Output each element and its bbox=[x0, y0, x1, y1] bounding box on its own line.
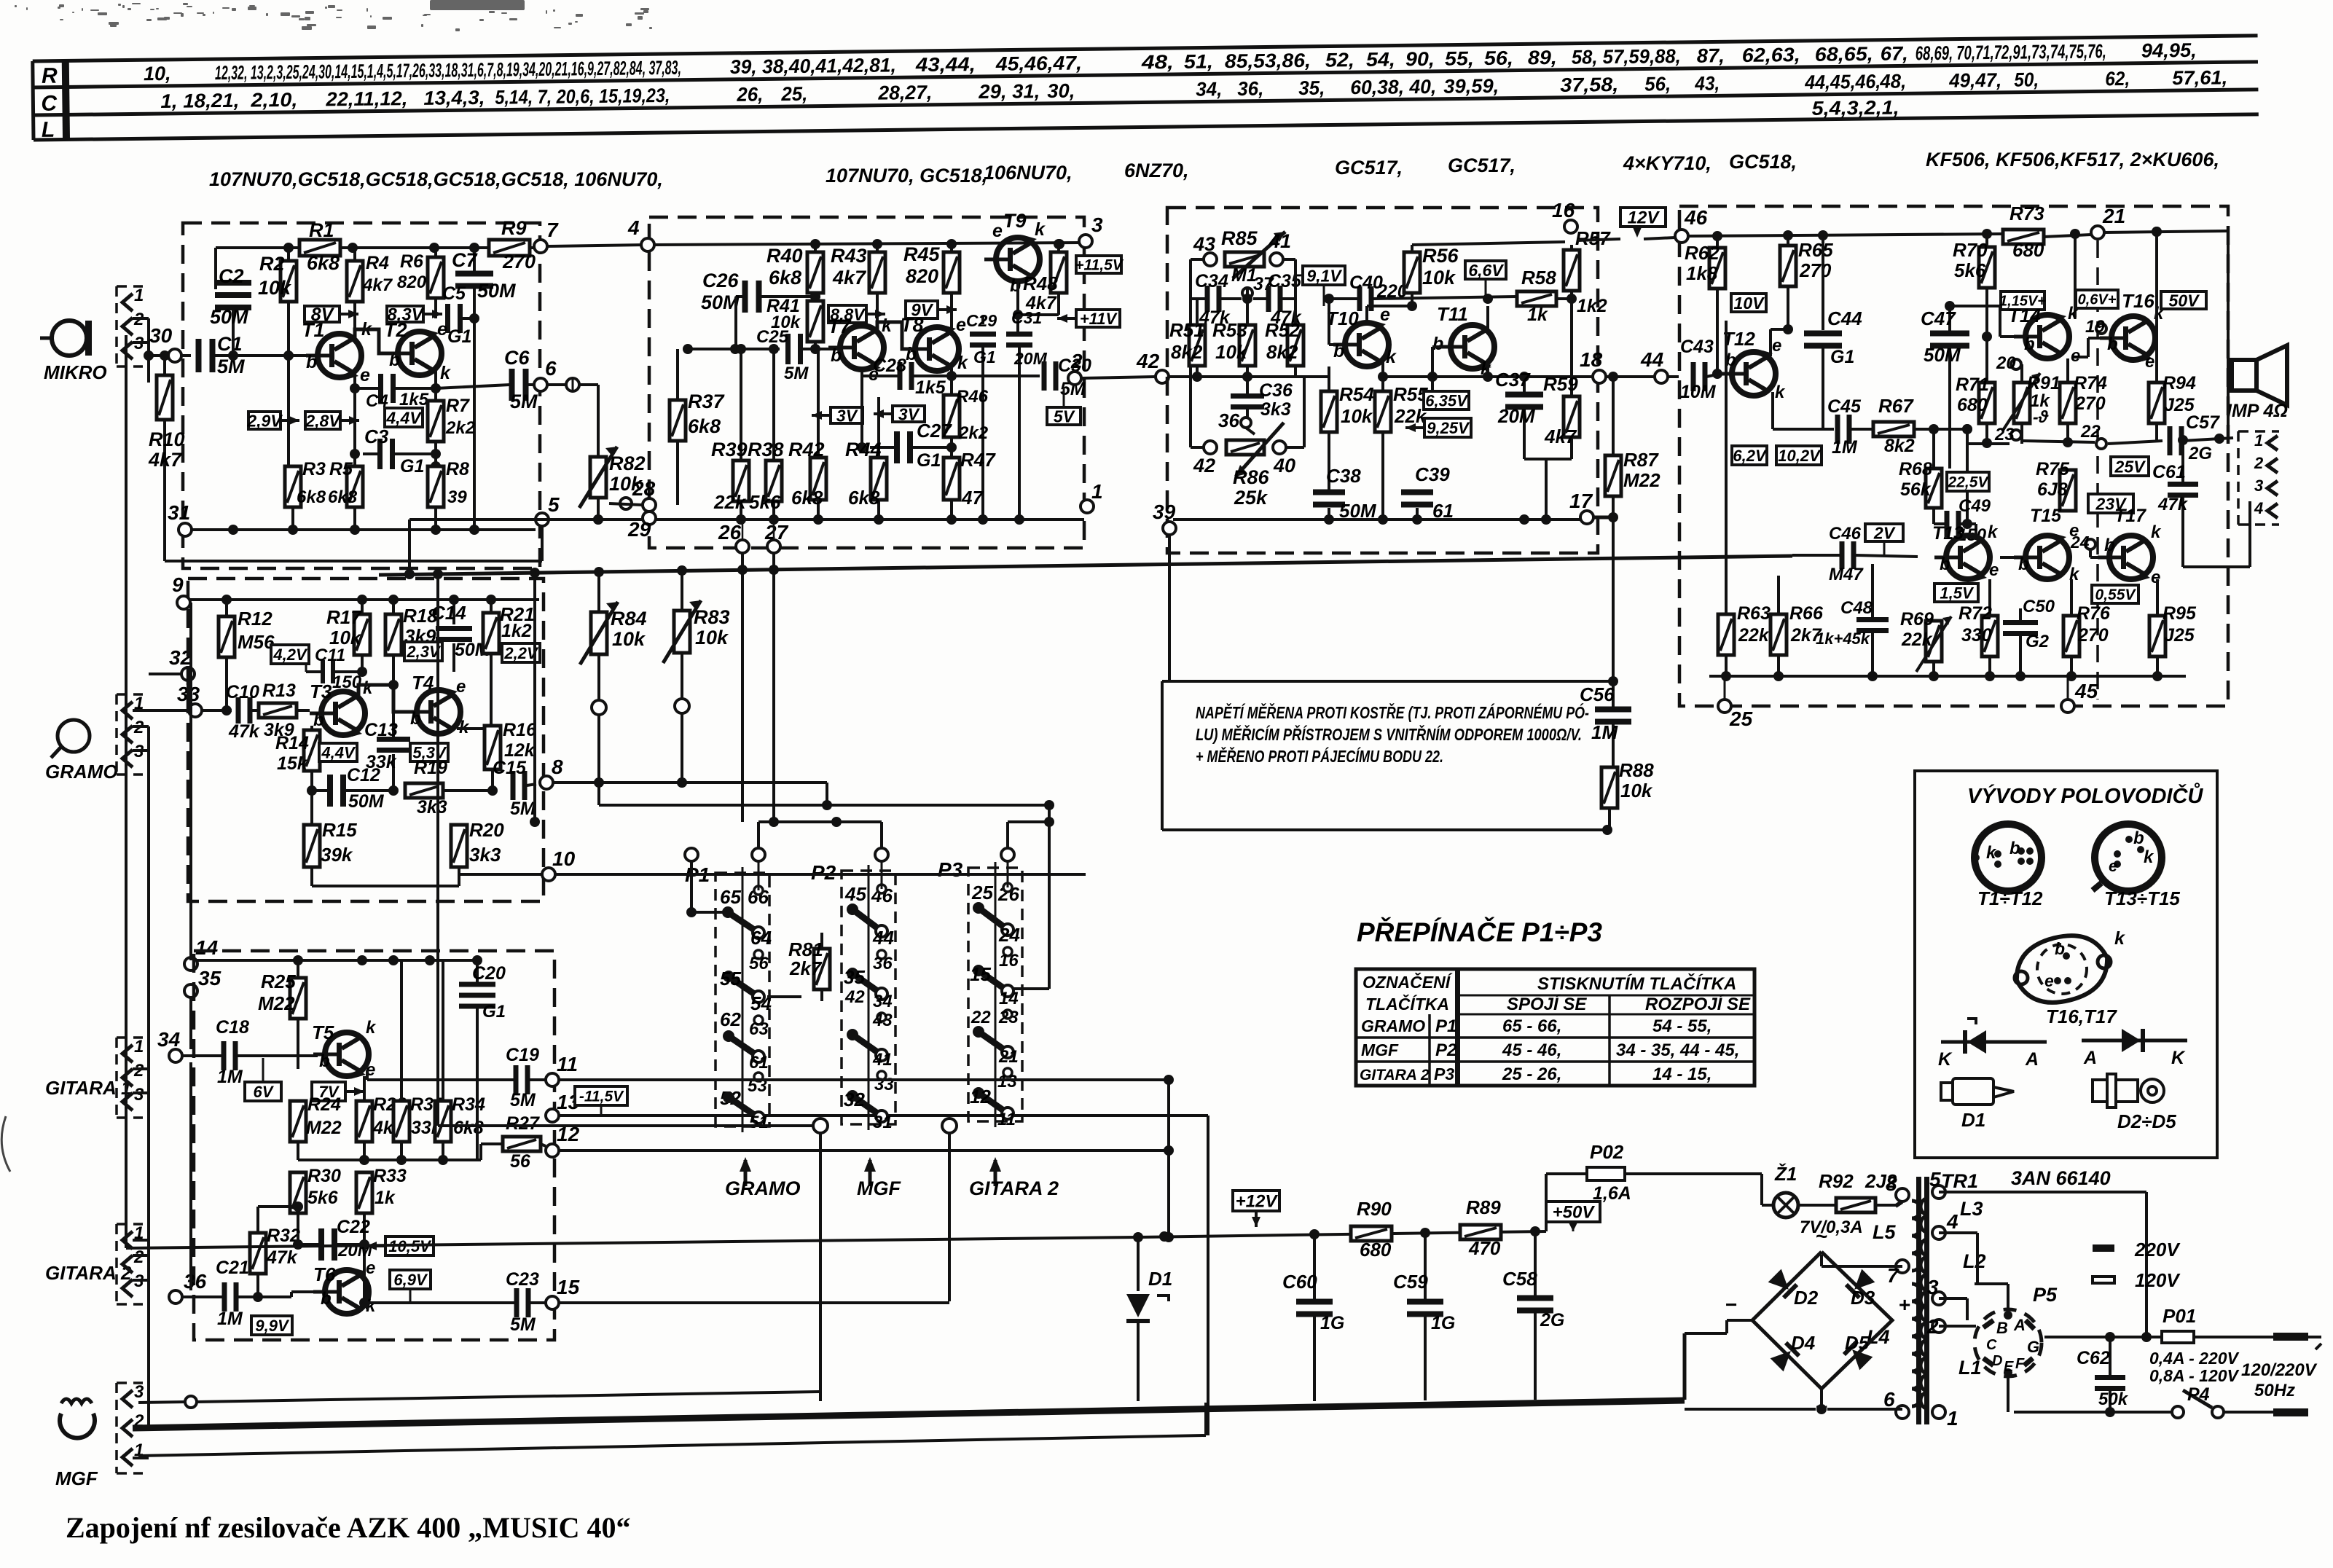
wire from R9 to node 4 bbox=[547, 245, 646, 246]
svg-text:50Hz: 50Hz bbox=[2254, 1381, 2295, 1400]
svg-text:C61: C61 bbox=[2152, 462, 2186, 482]
svg-text:C29: C29 bbox=[966, 311, 997, 330]
wire T1 emitter/C4 line bbox=[353, 373, 356, 388]
diode D2-D5 drawing bbox=[2082, 1039, 2187, 1043]
svg-text:OZNAČENÍ: OZNAČENÍ bbox=[1362, 972, 1453, 992]
svg-text:2k2: 2k2 bbox=[958, 423, 989, 443]
svg-text:C22: C22 bbox=[337, 1217, 370, 1237]
svg-text:M56: M56 bbox=[238, 631, 275, 653]
node 1 bbox=[1081, 500, 1094, 513]
resistor R8 bbox=[428, 466, 444, 507]
transformer terminals bbox=[1896, 1188, 1909, 1202]
svg-text:e: e bbox=[2145, 352, 2154, 372]
svg-text:2: 2 bbox=[2254, 454, 2264, 472]
pinout T1-T12 bbox=[1975, 824, 2042, 891]
resistor R2 bbox=[287, 248, 290, 261]
svg-text:C49: C49 bbox=[1958, 496, 1991, 516]
svg-text:89,: 89, bbox=[1528, 47, 1557, 68]
svg-text:67,: 67, bbox=[1881, 42, 1908, 64]
svg-text:58, 57,59,88,: 58, 57,59,88, bbox=[1572, 45, 1681, 68]
svg-text:2G: 2G bbox=[2188, 444, 2212, 463]
svg-text:20M: 20M bbox=[1497, 405, 1536, 427]
svg-text:TR1: TR1 bbox=[1941, 1170, 1978, 1192]
pot R85 with nodes 43/41 bbox=[1204, 253, 1217, 266]
svg-text:6: 6 bbox=[545, 357, 557, 380]
svg-text:R33: R33 bbox=[373, 1166, 407, 1186]
svg-text:b: b bbox=[321, 1289, 332, 1309]
capacitor C27 bbox=[860, 376, 863, 447]
voltage 10V bbox=[1731, 294, 1766, 312]
dashed box T7-T9 stage bbox=[649, 217, 1084, 548]
node 19 bbox=[2096, 324, 2106, 334]
pinout T16 T17 TO-3 package bbox=[2009, 927, 2114, 1011]
svg-text:+: + bbox=[1899, 1293, 1910, 1316]
svg-text:6J8: 6J8 bbox=[2037, 479, 2068, 500]
resistor R3 bbox=[291, 465, 294, 468]
winding L3 bbox=[1921, 1198, 1929, 1233]
svg-text:5V: 5V bbox=[1054, 407, 1075, 426]
scan noise bbox=[15, 0, 652, 31]
svg-text:34: 34 bbox=[873, 992, 893, 1011]
resistor R14 bbox=[311, 726, 313, 730]
svg-text:MGF: MGF bbox=[857, 1177, 901, 1199]
svg-text:C59: C59 bbox=[1393, 1271, 1428, 1293]
svg-text:1k: 1k bbox=[1527, 305, 1548, 325]
svg-text:8k2: 8k2 bbox=[1884, 436, 1915, 456]
svg-text:4,4V: 4,4V bbox=[385, 408, 422, 427]
dashed box gramo preamp bbox=[188, 579, 544, 901]
svg-text:14: 14 bbox=[999, 989, 1019, 1008]
bridge diode D3 bbox=[1845, 1269, 1875, 1300]
svg-text:22k: 22k bbox=[1738, 625, 1770, 646]
svg-text:1M: 1M bbox=[1832, 437, 1858, 458]
svg-text:+11V: +11V bbox=[1080, 310, 1118, 328]
svg-text:56: 56 bbox=[749, 954, 769, 973]
svg-text:62,: 62, bbox=[2105, 68, 2130, 90]
resistor R62 bbox=[1716, 236, 1719, 248]
svg-text:1: 1 bbox=[2254, 431, 2263, 450]
svg-text:A: A bbox=[2013, 1316, 2026, 1334]
svg-text:2: 2 bbox=[1926, 1315, 1939, 1338]
svg-text:C28: C28 bbox=[873, 356, 906, 376]
crossing symbol on node6 line bbox=[566, 378, 579, 391]
P2 bottom to bus bbox=[820, 1126, 821, 1401]
wire frame around note bbox=[1162, 680, 1613, 683]
svg-text:T7: T7 bbox=[828, 315, 852, 337]
T12 collector down bbox=[1771, 392, 1774, 429]
svg-text:16: 16 bbox=[1552, 199, 1575, 222]
P5 voltage selector bbox=[1975, 1309, 2042, 1376]
svg-text:39k: 39k bbox=[321, 844, 353, 866]
svg-text:34,: 34, bbox=[1196, 78, 1222, 100]
switch P2 dashed box bbox=[842, 871, 895, 1124]
resistor R12 bbox=[225, 600, 228, 616]
resistor R5 bbox=[353, 454, 356, 466]
svg-text:3k3: 3k3 bbox=[417, 797, 447, 818]
svg-text:1M: 1M bbox=[217, 1067, 243, 1087]
svg-text:k: k bbox=[2151, 522, 2162, 542]
capacitor C7 bbox=[473, 248, 476, 272]
svg-text:GC518,: GC518, bbox=[1729, 151, 1797, 173]
TR1 pin6 line bbox=[1685, 1408, 1816, 1411]
svg-text:2: 2 bbox=[133, 1247, 144, 1267]
svg-text:6NZ70,: 6NZ70, bbox=[1124, 160, 1189, 181]
capacitor C35 bbox=[1266, 286, 1271, 312]
svg-text:P3: P3 bbox=[938, 858, 963, 881]
svg-text:D2: D2 bbox=[1794, 1287, 1819, 1309]
svg-text:R59: R59 bbox=[1543, 373, 1578, 395]
svg-text:5,4,3,2,1,: 5,4,3,2,1, bbox=[1811, 97, 1899, 119]
P bank arrows and labels bbox=[744, 1160, 748, 1186]
svg-text:L2: L2 bbox=[1963, 1250, 1986, 1272]
svg-text:KF506, KF506,KF517, 2×KU606,: KF506, KF506,KF517, 2×KU606, bbox=[1926, 149, 2219, 170]
svg-text:25: 25 bbox=[1729, 707, 1753, 730]
svg-text:C20: C20 bbox=[472, 963, 506, 984]
svg-text:56k: 56k bbox=[1900, 479, 1932, 500]
svg-text:B: B bbox=[1996, 1319, 2008, 1337]
R95 bbox=[2149, 616, 2165, 656]
svg-text:GC517,: GC517, bbox=[1448, 154, 1516, 176]
svg-text:R: R bbox=[42, 64, 58, 88]
svg-text:P4: P4 bbox=[2187, 1384, 2210, 1405]
svg-text:Zapojení nf zesilovače AZK 400: Zapojení nf zesilovače AZK 400 „MUSIC 40… bbox=[66, 1511, 631, 1544]
voltage 2,2V bbox=[502, 643, 540, 662]
node 21 bbox=[2091, 226, 2104, 239]
wire node6 to R82 bbox=[547, 383, 566, 386]
svg-text:31: 31 bbox=[168, 501, 190, 524]
dashed box gitara preamp bbox=[194, 951, 554, 1340]
svg-text:C7: C7 bbox=[452, 249, 478, 271]
svg-text:30: 30 bbox=[149, 324, 173, 347]
resistor R16 bbox=[485, 726, 501, 769]
svg-text:17: 17 bbox=[1569, 490, 1593, 512]
node 30 bbox=[168, 349, 181, 362]
svg-text:C1: C1 bbox=[217, 333, 243, 355]
svg-text:5k6: 5k6 bbox=[749, 491, 781, 513]
svg-text:D2÷D5: D2÷D5 bbox=[2117, 1110, 2176, 1132]
gramo top rail bbox=[190, 598, 539, 601]
svg-text:b: b bbox=[313, 710, 324, 730]
svg-text:STISKNUTÍM TLAČÍTKA: STISKNUTÍM TLAČÍTKA bbox=[1537, 973, 1736, 994]
svg-text:0,6V+: 0,6V+ bbox=[2078, 292, 2117, 308]
svg-text:+50V: +50V bbox=[1553, 1203, 1596, 1223]
svg-text:21: 21 bbox=[998, 1047, 1019, 1067]
P3 top terminal bbox=[1001, 848, 1014, 861]
6,2V box bbox=[1732, 446, 1767, 465]
svg-text:32: 32 bbox=[844, 1089, 865, 1110]
voltage +11,5V bbox=[1076, 256, 1121, 273]
svg-text:15: 15 bbox=[557, 1276, 580, 1298]
svg-text:20: 20 bbox=[1996, 353, 2016, 373]
bridge diode D5 bbox=[1843, 1340, 1873, 1371]
svg-text:22k: 22k bbox=[1901, 630, 1933, 650]
transistor T3 bbox=[321, 691, 365, 735]
winding L2 bbox=[1921, 1239, 1929, 1309]
diode D1 bbox=[1137, 1237, 1140, 1291]
svg-text:G1: G1 bbox=[400, 456, 424, 477]
svg-text:10: 10 bbox=[552, 847, 576, 870]
svg-text:VÝVODY POLOVODIČŮ: VÝVODY POLOVODIČŮ bbox=[1967, 782, 2203, 808]
resistor R33 bbox=[356, 1172, 372, 1213]
wire node11 feed bbox=[559, 1078, 1169, 1081]
svg-text:29: 29 bbox=[627, 518, 651, 541]
svg-text:6,6V: 6,6V bbox=[1468, 261, 1504, 280]
svg-text:52,: 52, bbox=[1325, 49, 1354, 71]
svg-text:T10: T10 bbox=[1326, 307, 1359, 329]
svg-text:34 - 35, 44 - 45,: 34 - 35, 44 - 45, bbox=[1616, 1040, 1739, 1060]
svg-text:e: e bbox=[360, 365, 370, 385]
capacitor C31 bbox=[1006, 332, 1032, 337]
svg-text:39, 38,40,41,42,81,: 39, 38,40,41,42,81, bbox=[730, 54, 896, 78]
svg-text:P2: P2 bbox=[811, 861, 836, 884]
pinout T13-T15 bbox=[2095, 824, 2162, 891]
mains plug bottom bbox=[2273, 1408, 2308, 1416]
node 12 bbox=[546, 1144, 559, 1157]
wires gramo connector bbox=[133, 725, 149, 728]
wire gitara2 to node36 bbox=[148, 1255, 149, 1297]
semiconductor pinout box bbox=[1915, 771, 2217, 1158]
svg-text:+11,5V: +11,5V bbox=[1075, 257, 1124, 274]
capacitor C3 bbox=[353, 388, 356, 454]
svg-text:−: − bbox=[1725, 1293, 1737, 1316]
svg-text:270: 270 bbox=[2074, 393, 2106, 414]
resistor R73 bbox=[2003, 230, 2044, 244]
T10 wiring bbox=[1328, 299, 1330, 345]
resistor R27 bbox=[503, 1137, 541, 1151]
svg-text:k: k bbox=[363, 678, 374, 698]
T4 collector jog bbox=[457, 727, 491, 730]
svg-text:T5: T5 bbox=[312, 1022, 334, 1043]
voltage 5,3V bbox=[410, 743, 448, 761]
bottom wire 3 bbox=[138, 1402, 188, 1403]
svg-text:107NU70,GC518,GC518,GC518,GC51: 107NU70,GC518,GC518,GC518,GC518, 106NU70… bbox=[209, 168, 663, 190]
winding L1 bbox=[1921, 1304, 1929, 1409]
svg-text:15: 15 bbox=[970, 963, 991, 985]
svg-text:R76: R76 bbox=[2077, 603, 2111, 624]
svg-text:R69: R69 bbox=[1900, 609, 1934, 630]
svg-text:R2: R2 bbox=[259, 253, 285, 275]
svg-text:28: 28 bbox=[632, 477, 656, 500]
svg-text:R53: R53 bbox=[1212, 319, 1247, 341]
svg-text:L4: L4 bbox=[1867, 1326, 1890, 1348]
resistor R18 bbox=[392, 600, 395, 614]
svg-text:R38: R38 bbox=[748, 439, 784, 460]
svg-text:9,25V: 9,25V bbox=[1427, 419, 1470, 437]
svg-text:C26: C26 bbox=[702, 270, 740, 291]
svg-text:E: E bbox=[2004, 1359, 2014, 1375]
voltage 2,9V bbox=[248, 412, 281, 429]
svg-text:680: 680 bbox=[1360, 1239, 1392, 1261]
svg-text:b: b bbox=[2133, 828, 2144, 848]
capacitor C58 bbox=[1534, 1231, 1537, 1296]
svg-text:1k2: 1k2 bbox=[501, 621, 532, 641]
svg-text:43,: 43, bbox=[1694, 72, 1720, 94]
resistor R56 bbox=[1411, 245, 1413, 252]
svg-text:47: 47 bbox=[961, 487, 984, 509]
svg-text:22,11,12,: 22,11,12, bbox=[325, 87, 407, 110]
svg-text:D5: D5 bbox=[1845, 1332, 1870, 1354]
capacitor C60 bbox=[1313, 1234, 1316, 1300]
voltage 2,3V bbox=[404, 642, 442, 661]
svg-text:b: b bbox=[2055, 939, 2065, 958]
svg-text:45 - 46,: 45 - 46, bbox=[1502, 1040, 1561, 1060]
lamp Z1 bbox=[1773, 1193, 1798, 1218]
svg-text:T8: T8 bbox=[901, 314, 924, 336]
svg-text:36,: 36, bbox=[1237, 78, 1263, 100]
P1 top terminals bbox=[685, 848, 698, 861]
svg-text:1k2: 1k2 bbox=[1577, 296, 1607, 316]
R68 bbox=[1932, 429, 1935, 469]
svg-text:K: K bbox=[1938, 1049, 1953, 1070]
50V box bbox=[2161, 291, 2206, 309]
svg-text:R15: R15 bbox=[322, 819, 357, 841]
C30 output cap bbox=[1042, 361, 1047, 391]
capacitor C19 bbox=[514, 1065, 519, 1094]
svg-text:10k: 10k bbox=[1422, 267, 1456, 289]
svg-text:e: e bbox=[1772, 336, 1781, 356]
svg-text:4k7: 4k7 bbox=[1544, 426, 1577, 447]
node 36 bbox=[1241, 418, 1251, 428]
svg-text:C36: C36 bbox=[1259, 380, 1293, 401]
node 24 bbox=[2085, 539, 2095, 549]
25V box bbox=[2111, 457, 2149, 476]
svg-text:G2: G2 bbox=[2026, 632, 2050, 651]
svg-text:1: 1 bbox=[134, 286, 144, 305]
svg-text:M22: M22 bbox=[1623, 469, 1660, 491]
T15 bbox=[2026, 536, 2069, 579]
svg-text:C6: C6 bbox=[504, 347, 530, 369]
svg-text:C25: C25 bbox=[756, 327, 789, 347]
svg-text:G1: G1 bbox=[973, 348, 996, 366]
svg-text:10k: 10k bbox=[695, 627, 729, 648]
gitara top rail bbox=[197, 959, 477, 962]
svg-text:SPOJÍ SE: SPOJÍ SE bbox=[1507, 994, 1587, 1014]
svg-text:2G: 2G bbox=[1540, 1310, 1564, 1330]
svg-text:0,4A - 220V: 0,4A - 220V bbox=[2149, 1349, 2240, 1368]
R66 bbox=[1771, 614, 1787, 655]
svg-text:e: e bbox=[2071, 346, 2080, 366]
svg-text:k: k bbox=[957, 353, 968, 373]
R71 bbox=[1985, 337, 1988, 383]
resistor R20 bbox=[458, 791, 460, 825]
transistor T2 bbox=[398, 332, 442, 375]
svg-text:3: 3 bbox=[1091, 213, 1103, 236]
resistor R57 bbox=[1570, 245, 1573, 250]
svg-text:MGF: MGF bbox=[55, 1467, 98, 1489]
svg-text:3: 3 bbox=[134, 1382, 144, 1402]
svg-text:NAPĚTÍ MĚŘENA PROTI KOSTŘE (TJ: NAPĚTÍ MĚŘENA PROTI KOSTŘE (TJ. PROTI ZÁ… bbox=[1196, 702, 1589, 722]
svg-text:T4: T4 bbox=[412, 672, 434, 694]
svg-text:R43: R43 bbox=[831, 245, 867, 267]
T3-T4 coupling bbox=[361, 672, 363, 691]
wire mid rail bbox=[298, 1159, 481, 1161]
svg-text:94,95,: 94,95, bbox=[2141, 39, 2197, 62]
svg-text:2k7: 2k7 bbox=[789, 957, 823, 979]
capacitor C26 bbox=[742, 281, 748, 313]
capacitor C25 bbox=[688, 348, 780, 350]
resistor R81 bbox=[814, 949, 830, 989]
svg-text:PŘEPÍNAČE P1÷P3: PŘEPÍNAČE P1÷P3 bbox=[1357, 917, 1602, 947]
node 45 bbox=[2061, 699, 2074, 713]
svg-text:R88: R88 bbox=[1619, 759, 1654, 781]
svg-text:31: 31 bbox=[873, 1113, 893, 1132]
bridge rectifier bbox=[1752, 1252, 1892, 1389]
svg-text:21: 21 bbox=[2102, 205, 2125, 227]
resistor R15 bbox=[310, 791, 313, 825]
node 37 bbox=[1242, 288, 1252, 298]
right edge wire bbox=[2227, 231, 2230, 438]
node 8 bbox=[540, 776, 553, 789]
svg-text:R75: R75 bbox=[2036, 459, 2070, 479]
svg-text:C62: C62 bbox=[2077, 1348, 2110, 1368]
svg-text:R42: R42 bbox=[788, 439, 825, 460]
svg-text:R87: R87 bbox=[1623, 449, 1659, 471]
bridge connections bbox=[1727, 1319, 1752, 1322]
transistor T7 bbox=[840, 326, 884, 369]
svg-text:35: 35 bbox=[844, 966, 865, 988]
svg-text:R48: R48 bbox=[1023, 273, 1058, 294]
svg-text:T1: T1 bbox=[302, 319, 325, 341]
svg-text:8k2: 8k2 bbox=[1171, 341, 1203, 363]
svg-text:11: 11 bbox=[557, 1053, 578, 1075]
svg-text:5M: 5M bbox=[510, 1090, 536, 1110]
P3 bottom terminal bbox=[942, 1118, 957, 1133]
svg-text:270: 270 bbox=[1799, 259, 1832, 281]
svg-text:39,59,: 39,59, bbox=[1443, 75, 1499, 98]
svg-text:5k6: 5k6 bbox=[307, 1188, 339, 1208]
svg-text:25,: 25, bbox=[780, 83, 807, 105]
resistor R34 bbox=[442, 960, 444, 1101]
svg-text:C12: C12 bbox=[347, 765, 380, 785]
svg-text:1M: 1M bbox=[217, 1309, 243, 1329]
svg-text:T16: T16 bbox=[2122, 290, 2154, 312]
svg-text:L: L bbox=[42, 118, 55, 142]
node17/39 wires bbox=[1168, 535, 1171, 681]
svg-text:36: 36 bbox=[1218, 409, 1239, 431]
svg-text:e: e bbox=[2151, 568, 2160, 587]
svg-text:GITARA 2: GITARA 2 bbox=[1360, 1067, 1430, 1083]
node 36 gitara2 bbox=[169, 1290, 182, 1304]
svg-text:P2: P2 bbox=[1435, 1040, 1457, 1060]
resistor R58 bbox=[1517, 291, 1556, 306]
capacitor C43 bbox=[1691, 362, 1696, 391]
resistor R70 bbox=[1985, 234, 1988, 247]
svg-text:470: 470 bbox=[1468, 1237, 1501, 1259]
svg-text:R66: R66 bbox=[1789, 603, 1824, 624]
resistor R42 bbox=[817, 349, 820, 458]
svg-text:56,: 56, bbox=[1644, 73, 1671, 95]
component reference table (R/C/L rows) bbox=[33, 36, 2259, 142]
svg-text:GRAMO: GRAMO bbox=[725, 1177, 801, 1199]
svg-text:2V: 2V bbox=[1873, 523, 1896, 542]
svg-text:R45: R45 bbox=[903, 243, 941, 265]
svg-text:L3: L3 bbox=[1960, 1198, 1983, 1220]
svg-text:b: b bbox=[906, 344, 917, 364]
top rail of T1 stage bbox=[216, 246, 299, 249]
capacitor C44 bbox=[1822, 235, 1824, 330]
svg-text:6k8: 6k8 bbox=[688, 415, 721, 437]
voltage 12V box bbox=[1620, 208, 1666, 227]
svg-text:50M: 50M bbox=[210, 306, 248, 328]
svg-text:2,10,: 2,10, bbox=[250, 89, 297, 111]
svg-text:R10: R10 bbox=[149, 428, 185, 450]
node 39 bbox=[1163, 522, 1176, 535]
svg-text:G1: G1 bbox=[482, 1002, 506, 1022]
svg-text:+12V: +12V bbox=[1236, 1192, 1279, 1212]
23V box bbox=[2088, 494, 2133, 513]
lower wiring of tone box bbox=[1524, 458, 1572, 460]
svg-text:6,9V: 6,9V bbox=[393, 1271, 428, 1289]
